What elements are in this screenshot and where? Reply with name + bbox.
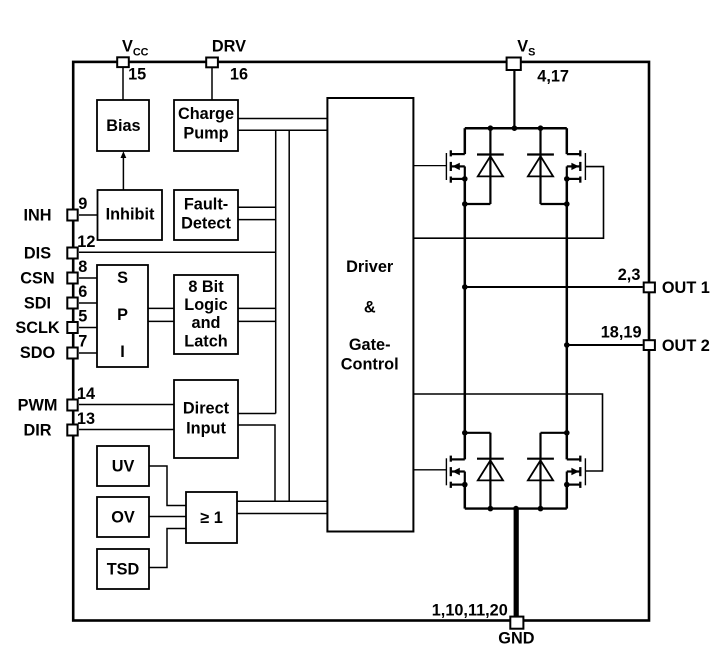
junction Q2 source <box>564 176 570 182</box>
wire SDI pin to SPI <box>79 302 97 304</box>
transistor Q4 low-side right <box>567 458 581 460</box>
transistor Q2 high-side right <box>566 128 569 154</box>
junction OUT2 node <box>564 342 570 348</box>
wire OR-gate to Driver lower <box>237 513 327 515</box>
block 8 Bit Logic and Latch <box>174 275 238 354</box>
wire left bridge leg <box>464 179 467 460</box>
svg-text:S: S <box>117 269 128 287</box>
svg-text:OUT 1: OUT 1 <box>662 279 710 297</box>
junction D3 on left leg <box>462 430 468 436</box>
wire DRV pin to Charge Pump <box>211 68 213 100</box>
svg-text:UV: UV <box>112 457 135 475</box>
svg-text:Driver: Driver <box>346 258 394 276</box>
svg-text:DIS: DIS <box>24 244 51 262</box>
wire Driver to Q4 gate <box>413 394 603 471</box>
svg-text:1,10,11,20: 1,10,11,20 <box>432 601 508 619</box>
svg-text:Pump: Pump <box>183 125 228 143</box>
pin OUT2 <box>644 340 655 350</box>
svg-text:P: P <box>117 306 128 324</box>
block Fault-Detect <box>174 190 238 240</box>
junction VS on top rail <box>512 125 518 131</box>
svg-text:≥ 1: ≥ 1 <box>200 509 223 527</box>
junction D1 on Q1 leg <box>462 201 468 207</box>
wire SCLK pin to SPI <box>79 327 97 329</box>
svg-text:Logic: Logic <box>184 296 227 314</box>
wire Charge Pump to Driver lower <box>238 129 327 131</box>
junction Q3 source <box>462 482 468 488</box>
H-bridge ground rail <box>465 507 567 509</box>
pin DIS <box>67 248 77 259</box>
wire VS pin to H-bridge top rail <box>513 70 515 128</box>
svg-text:9: 9 <box>78 195 87 213</box>
wire Charge Pump to Driver upper <box>238 118 327 120</box>
wire SPI to Logic lower <box>148 320 174 322</box>
wire PWM pin to Direct Input <box>79 404 174 406</box>
svg-text:OUT 2: OUT 2 <box>662 337 710 355</box>
svg-text:12: 12 <box>77 233 95 251</box>
svg-text:7: 7 <box>78 333 87 351</box>
junction diode D1 top rail <box>488 125 494 131</box>
transistor Q1 high-side left <box>464 128 467 154</box>
svg-text:DRV: DRV <box>212 37 246 55</box>
wire CSN pin to SPI <box>79 277 97 279</box>
wire INH pin to Inhibit <box>79 214 98 216</box>
wire DIS pin to bus <box>79 251 276 253</box>
wire D3 cathode to Q3 drain <box>465 432 491 434</box>
block UV <box>97 446 149 486</box>
svg-text:GND: GND <box>498 630 534 648</box>
pin VS <box>507 58 521 71</box>
wire Inhibit to Bias <box>122 154 124 190</box>
svg-text:Gate-: Gate- <box>349 336 391 354</box>
wire OR-gate to Driver upper <box>237 500 327 502</box>
wire D4 cathode to Q4 drain <box>541 432 567 434</box>
junction D4 ground rail <box>538 506 544 512</box>
block Driver and Gate-Control <box>327 98 413 532</box>
wire right bridge leg <box>566 179 569 460</box>
wire SDO pin to SPI <box>79 352 97 354</box>
svg-text:Control: Control <box>341 356 399 374</box>
svg-text:Inhibit: Inhibit <box>106 206 155 224</box>
svg-text:I: I <box>120 343 125 361</box>
wire Driver to Q2 gate <box>413 167 604 239</box>
wire TSD to OR-gate <box>149 529 186 568</box>
wire DIR pin to Direct Input <box>79 429 174 431</box>
svg-text:OV: OV <box>111 508 135 526</box>
svg-text:Direct: Direct <box>183 400 230 418</box>
svg-text:TSD: TSD <box>107 560 140 578</box>
wire SPI to Logic upper <box>148 307 174 309</box>
pin DIR <box>67 425 77 436</box>
wire Fault-Detect out lower <box>238 219 276 221</box>
svg-text:SDO: SDO <box>20 344 55 362</box>
bus vertical A <box>275 130 277 413</box>
svg-text:18,19: 18,19 <box>601 324 642 342</box>
wire OUT2 <box>567 344 643 346</box>
wire UV to OR-gate <box>149 466 186 506</box>
svg-text:DIR: DIR <box>23 421 51 439</box>
svg-text:Bias: Bias <box>106 117 140 135</box>
pin SDO <box>67 348 77 359</box>
junction Q1 source <box>462 176 468 182</box>
svg-text:8 Bit: 8 Bit <box>188 278 224 296</box>
svg-text:15: 15 <box>128 66 146 84</box>
svg-text:Input: Input <box>186 420 226 438</box>
diode D3 body left <box>489 433 491 509</box>
svg-text:6: 6 <box>78 283 87 301</box>
block SPI <box>97 265 148 367</box>
svg-text:VCC: VCC <box>122 37 149 58</box>
pin VCC <box>117 57 129 67</box>
pin OUT1 <box>644 283 655 293</box>
svg-text:14: 14 <box>77 385 95 403</box>
arrowhead into Bias <box>121 151 127 158</box>
svg-text:2,3: 2,3 <box>618 266 641 284</box>
wire Logic out upper <box>238 307 276 309</box>
svg-text:INH: INH <box>23 206 51 224</box>
block Direct Input <box>174 380 238 458</box>
wire D1 anode to Q1 source <box>465 203 491 205</box>
diode D1 body left <box>489 128 491 204</box>
wire Direct Input out lower <box>238 425 275 501</box>
svg-text:Fault-: Fault- <box>184 195 228 213</box>
junction D3 ground rail <box>488 506 494 512</box>
wire Direct Input out upper <box>238 413 276 415</box>
wire Driver to Q1 gate <box>413 165 446 167</box>
block OV <box>97 497 149 537</box>
bus vertical B <box>288 130 290 501</box>
wire OUT1 <box>465 286 643 288</box>
block Bias <box>97 100 149 151</box>
diode D2 body right <box>539 128 541 204</box>
junction D4 on right leg <box>564 430 570 436</box>
block Charge Pump <box>174 100 238 151</box>
block OR-gate <box>186 492 237 543</box>
wire VCC pin to Bias <box>122 68 124 100</box>
block TSD <box>97 549 149 589</box>
svg-text:SDI: SDI <box>24 294 51 312</box>
svg-text:Charge: Charge <box>178 105 234 123</box>
wire Driver to Q3 gate <box>413 469 446 471</box>
wire OV to OR-gate <box>149 516 186 518</box>
wire Fault-Detect out upper <box>238 206 276 208</box>
svg-text:CSN: CSN <box>20 269 54 287</box>
junction OUT1 node <box>462 284 468 290</box>
wire D2 anode to Q2 source <box>541 203 567 205</box>
junction Q4 source <box>564 482 570 488</box>
svg-text:&: & <box>364 299 376 317</box>
svg-text:8: 8 <box>78 258 87 276</box>
svg-text:Detect: Detect <box>181 215 231 233</box>
svg-text:PWM: PWM <box>18 396 58 414</box>
pin GND <box>510 617 523 629</box>
wire Logic out lower <box>238 320 276 322</box>
svg-text:and: and <box>192 314 221 332</box>
svg-text:SCLK: SCLK <box>15 319 60 337</box>
wire ground stem <box>514 509 519 616</box>
svg-text:13: 13 <box>77 410 95 428</box>
pin DRV <box>206 58 218 68</box>
svg-text:4,17: 4,17 <box>537 67 569 85</box>
pin SCLK <box>67 322 77 333</box>
junction GND stem <box>513 506 519 512</box>
transistor Q3 low-side left <box>451 458 465 460</box>
IC boundary box <box>73 62 649 621</box>
svg-text:16: 16 <box>230 66 248 84</box>
pin INH <box>67 210 77 221</box>
svg-text:5: 5 <box>78 308 87 326</box>
pin CSN <box>67 273 77 284</box>
diode D4 body right <box>539 433 541 509</box>
junction diode D2 top rail <box>538 125 544 131</box>
H-bridge top rail <box>465 127 567 130</box>
block Inhibit <box>98 190 163 240</box>
svg-text:Latch: Latch <box>184 332 227 350</box>
junction D2 on Q2 leg <box>564 201 570 207</box>
svg-text:VS: VS <box>517 37 535 58</box>
pin PWM <box>67 400 77 411</box>
pin SDI <box>67 298 77 309</box>
